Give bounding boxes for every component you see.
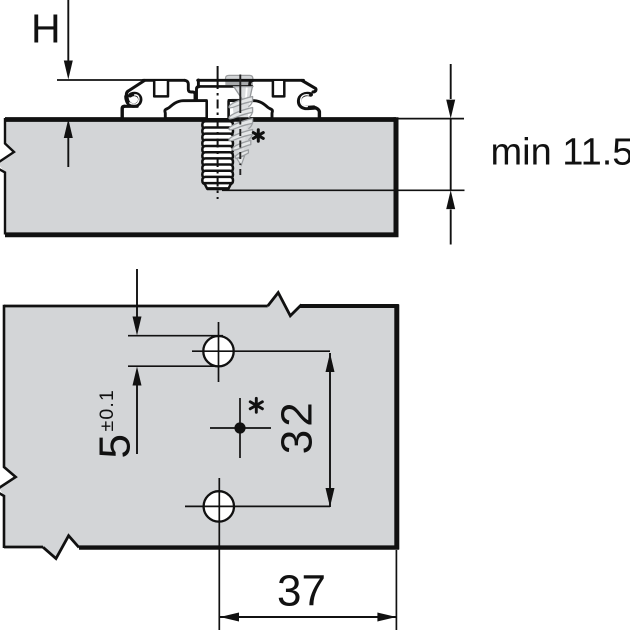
left plateau (boss bottom) and staircase <box>165 101 207 119</box>
boss top line <box>199 85 252 88</box>
svg-text:32: 32 <box>273 399 322 454</box>
right rolled edge curl <box>299 94 314 108</box>
boss left edge <box>197 86 200 100</box>
plate top edge center and right wing <box>198 79 304 82</box>
min 11.5 dimension line with arrows <box>446 64 455 245</box>
top edge break zigzag <box>268 293 302 316</box>
min 11.5 extension line bottom <box>222 189 465 191</box>
right wing outer diagonal and chamfer stub <box>302 81 316 92</box>
bottom edge right segment <box>79 545 399 549</box>
top edge right segment <box>300 304 399 308</box>
euro screw base <box>206 188 229 191</box>
euro screw neck <box>202 99 234 122</box>
system screw position dot <box>210 398 271 458</box>
euro screw base flange <box>202 118 234 122</box>
panel side view (gray board, top drawing) <box>0 117 399 237</box>
dimension H extension line <box>57 79 144 81</box>
mounting plate cross-section: outline strokes <box>122 80 319 119</box>
right edge <box>394 305 399 550</box>
wood screw cone <box>234 87 253 101</box>
slot rectangle right <box>273 81 284 96</box>
asterisk plan view <box>250 398 262 412</box>
svg-text:H: H <box>31 5 61 51</box>
bottom edge left segment <box>4 546 43 549</box>
wood screw head (under plate lines) <box>225 75 253 85</box>
wood screw centerline <box>239 75 241 107</box>
asterisk side view <box>253 130 263 142</box>
lower screw hole <box>185 491 330 521</box>
dimension H lower line with up arrow <box>64 119 73 167</box>
plate top edge left wing <box>143 79 185 82</box>
right leg <box>314 108 320 118</box>
panel top edge (redrawn over fills) <box>5 117 396 122</box>
wood screw tip <box>237 156 245 166</box>
left edge with break notch <box>0 305 16 548</box>
euro screw threads <box>202 121 233 188</box>
left foot <box>122 106 124 118</box>
upper screw hole <box>192 322 330 382</box>
bottom edge break zigzag <box>43 536 79 559</box>
left curl inner white sliver <box>130 95 139 104</box>
right plateau (boss bottom) and staircase <box>229 101 273 119</box>
panel plan view gray <box>0 293 399 559</box>
dimension H upper line with down arrow <box>64 0 73 80</box>
dimension 5 extension tangent lines <box>128 336 223 367</box>
svg-text:37: 37 <box>277 567 326 616</box>
slot rectangle left <box>154 81 168 96</box>
dimension 5 upper line with down arrow <box>133 269 142 336</box>
extension line 37 left (through lower hole) <box>218 478 220 630</box>
left rolled edge curl <box>126 94 140 106</box>
extension line 37 right <box>395 550 397 630</box>
right curl inner white sliver <box>301 95 309 107</box>
right inner step (mostly hidden behind screw) <box>250 80 254 89</box>
left ledge (curl bottom arm) <box>124 105 137 108</box>
dimension 5 lower line with up arrow <box>133 367 142 455</box>
left wing outer diagonal <box>126 81 144 98</box>
wood screw helical flights <box>229 97 253 159</box>
svg-text:min 11.5: min 11.5 <box>491 131 630 173</box>
left inner step <box>185 80 195 100</box>
dimension 32 line with arrows <box>326 353 335 507</box>
min 11.5 extension line top <box>398 118 464 120</box>
mounting plate cross-section: white body fills <box>122 80 319 118</box>
top edge left segment <box>4 305 268 308</box>
euro screw centerline <box>217 66 219 80</box>
dimension 37 line with arrows <box>220 613 396 622</box>
wood screw shaft core <box>232 99 251 160</box>
riser to boss top left <box>197 80 200 87</box>
